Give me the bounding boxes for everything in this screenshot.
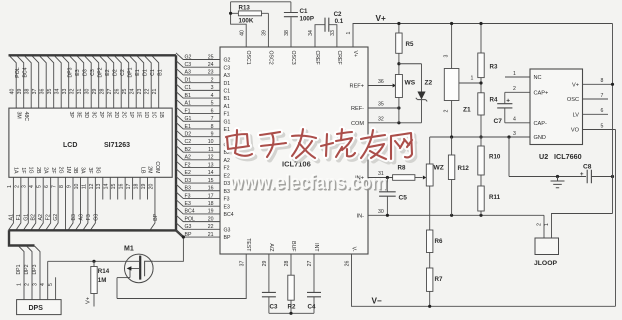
svg-text:R14: R14: [98, 268, 110, 275]
Z1 body: [444, 69, 459, 101]
wire bus entry C3 pin 24: [176, 61, 220, 68]
wire R8 to WZ wiper: [415, 177, 423, 179]
svg-text:7: 7: [601, 93, 604, 99]
svg-text:24: 24: [208, 62, 214, 68]
svg-text:LB: LB: [139, 167, 145, 174]
svg-text:COM: COM: [351, 121, 364, 127]
wire C5 bottom lead: [386, 196, 388, 215]
svg-text:A/Z: A/Z: [268, 243, 274, 251]
wire GND branch down: [508, 137, 510, 177]
svg-text:40: 40: [239, 30, 245, 36]
svg-text:R2: R2: [288, 304, 296, 311]
wire LCD bottom pin 6 to bus: [46, 177, 51, 230]
svg-text:8: 8: [601, 78, 604, 84]
stub LCD bottom pin 15: [117, 177, 119, 199]
wire LCD bottom pin 20 to bus: [150, 177, 155, 230]
svg-text:CAP+: CAP+: [534, 91, 549, 97]
wire R12 bottom: [451, 180, 453, 216]
wire OSC1 pin 40: [231, 2, 247, 47]
svg-text:38: 38: [284, 30, 290, 36]
svg-text:5: 5: [37, 185, 43, 188]
stub LCD bottom pin 18: [139, 177, 141, 199]
svg-text:SI71263: SI71263: [104, 142, 130, 149]
junction R12 IN-: [450, 214, 453, 217]
junction R13 left: [229, 12, 232, 15]
svg-text:G3: G3: [185, 224, 192, 230]
svg-text:1: 1: [346, 31, 352, 34]
svg-text:V+: V+: [352, 51, 358, 58]
wire TEST pin 37 to M1 source: [117, 254, 246, 299]
wire LCD bottom pin 3 to bus: [23, 177, 28, 230]
wire OSC3 pin 38 to C1: [290, 17, 292, 47]
wire V- rail: [352, 254, 616, 306]
svg-text:C3: C3: [185, 62, 192, 68]
svg-text:R5: R5: [406, 41, 414, 48]
wire C3 bottom: [268, 297, 270, 314]
svg-text:1: 1: [471, 76, 474, 82]
wire V+ rail: [353, 24, 613, 48]
svg-text:IN-: IN-: [357, 214, 365, 220]
svg-text:A2: A2: [185, 155, 191, 161]
svg-text:3P: 3P: [68, 112, 74, 119]
svg-text:F1: F1: [224, 112, 230, 118]
junction V+ Z1: [450, 22, 453, 25]
svg-text:3: 3: [22, 185, 28, 188]
svg-text:1E: 1E: [135, 112, 141, 119]
wire LCD bottom pin 12 to bus: [90, 177, 95, 230]
wire DPS pin 1 bus entry DP1: [19, 246, 25, 300]
wire bus entry G3 pin 22: [176, 223, 220, 230]
svg-text:3: 3: [32, 283, 38, 286]
svg-text:11: 11: [208, 147, 213, 153]
svg-text:A1: A1: [8, 214, 14, 220]
junction R4 rail: [479, 135, 482, 138]
svg-text:6: 6: [601, 108, 604, 114]
watermark chinese characters: [226, 129, 415, 162]
svg-text:REF+: REF+: [350, 84, 364, 90]
junction ground symbol: [556, 175, 559, 178]
wire M1 source down: [116, 278, 118, 299]
wire REF- pin 35: [368, 107, 399, 109]
svg-text:G3: G3: [93, 214, 99, 221]
wire R5 to WS: [398, 53, 400, 74]
wire M1 source: [117, 277, 130, 279]
junction R14 gate: [92, 260, 95, 263]
svg-text:A3: A3: [224, 73, 230, 79]
junction COM: [397, 121, 400, 124]
svg-text:37: 37: [239, 261, 245, 267]
svg-text:29: 29: [262, 261, 268, 267]
op-amp U1 ICL7106 body: [220, 47, 368, 254]
svg-text:1A: 1A: [13, 167, 19, 174]
svg-text:D3: D3: [83, 69, 89, 76]
wire R6 to R7: [429, 253, 431, 269]
transistor M1: [125, 254, 154, 283]
svg-text:32: 32: [70, 89, 76, 95]
svg-text:0.1: 0.1: [335, 18, 344, 25]
wire bus entry G2 pin 25: [176, 53, 220, 60]
wire R3 to R4: [480, 78, 482, 93]
wire R4 bottom to rail: [480, 115, 482, 137]
wire R12 top: [451, 137, 453, 155]
svg-text:7: 7: [211, 116, 214, 122]
wire bus entry E2 pin 14: [176, 169, 220, 176]
svg-text:D1: D1: [185, 77, 192, 83]
svg-text:DP2: DP2: [24, 264, 30, 274]
svg-text:INT: INT: [313, 243, 319, 252]
svg-text:1M: 1M: [65, 166, 71, 173]
svg-text:1C: 1C: [150, 112, 156, 119]
svg-text:19: 19: [141, 184, 147, 190]
IC U2 ICL7660 body: [530, 69, 583, 145]
svg-text:2: 2: [14, 185, 20, 188]
svg-text:14: 14: [104, 184, 110, 190]
svg-text:22: 22: [208, 224, 214, 230]
wire LCD top pin 36 to bus: [39, 55, 46, 108]
svg-text:3: 3: [211, 85, 214, 91]
wire DPS pin 3 bus entry DP3: [35, 246, 41, 300]
svg-text:21: 21: [152, 89, 158, 95]
wire C7 top lead: [504, 92, 506, 103]
svg-text:F1: F1: [185, 108, 191, 114]
stub DPS pin 5: [55, 277, 57, 299]
svg-text:18: 18: [208, 201, 214, 207]
svg-text:E1: E1: [135, 69, 141, 75]
svg-text:23: 23: [208, 70, 214, 76]
svg-text:23: 23: [137, 89, 143, 95]
svg-text:27: 27: [307, 261, 313, 267]
wire CAP- pin 4: [505, 122, 530, 124]
svg-text:R11: R11: [489, 194, 501, 201]
wire LCD bottom pin 4 to bus: [31, 177, 36, 230]
svg-text:27: 27: [107, 89, 113, 95]
wire BUF pin 28 to R2: [290, 254, 292, 275]
svg-text:V+: V+: [376, 14, 386, 23]
LCD display SI71263: [9, 108, 172, 177]
svg-text:LCD: LCD: [63, 142, 77, 149]
svg-text:OSC1: OSC1: [245, 51, 251, 65]
svg-text:37: 37: [32, 89, 38, 95]
wire bus entry C2 pin 10: [176, 138, 220, 145]
resistor R7: [427, 268, 433, 291]
wire U2 pin 7: [583, 98, 609, 100]
wire LCD bottom pin 9 to bus: [68, 177, 73, 230]
wire C8 right to V+ column: [591, 176, 612, 178]
svg-text:35: 35: [47, 89, 53, 95]
svg-text:VO: VO: [571, 128, 580, 134]
svg-text:C7: C7: [494, 118, 503, 125]
junction C5 IN-: [386, 214, 389, 217]
svg-text:2: 2: [444, 109, 450, 112]
wire bus entry A2 pin 12: [176, 153, 220, 160]
svg-text:25: 25: [208, 54, 214, 60]
svg-text:14: 14: [208, 170, 214, 176]
svg-text:R12: R12: [458, 165, 470, 172]
capacitor C8: [587, 170, 591, 184]
wire LCD top pin 29 to bus: [92, 55, 99, 108]
wire JLOOP pin 2: [543, 215, 545, 238]
svg-text:REF-: REF-: [351, 106, 364, 112]
svg-text:2C: 2C: [120, 112, 126, 119]
junction BP M1: [182, 235, 185, 238]
svg-text:31: 31: [77, 89, 83, 95]
capacitor C1: [284, 13, 298, 17]
svg-text:B1: B1: [158, 69, 164, 75]
resistor R12: [448, 155, 454, 180]
wire C5 top lead: [386, 178, 388, 192]
svg-text:G2: G2: [53, 214, 59, 221]
wire bus entry C1 pin 3: [176, 84, 220, 91]
wire LCD top pin 37 to bus: [32, 55, 39, 108]
wire LCD top pin 21 to bus: [152, 55, 159, 108]
svg-text:6: 6: [211, 108, 214, 114]
svg-text:C5: C5: [399, 195, 408, 202]
svg-text:C2: C2: [334, 11, 342, 18]
svg-text:D2: D2: [113, 69, 119, 76]
svg-text:R7: R7: [435, 276, 443, 283]
junction R11 IN-: [479, 214, 482, 217]
wire bus entry B3 pin 16: [176, 184, 220, 191]
wire REF+ pin 36 to WS wiper: [368, 85, 393, 87]
wire CAP+ pin 2: [505, 91, 530, 93]
wire bus entry E1 pin 8: [176, 122, 220, 129]
svg-text:30: 30: [85, 89, 91, 95]
wire Z1 pin 1 to R3 R4 node: [459, 82, 481, 84]
svg-text:C1: C1: [150, 69, 156, 76]
wire to Z2 top: [399, 63, 422, 65]
svg-text:B2: B2: [185, 147, 191, 153]
svg-text:15: 15: [208, 178, 214, 184]
svg-text:E1: E1: [224, 127, 230, 133]
wire bus entry BC4 pin 19: [176, 207, 220, 214]
wire LCD top pin 24 to bus: [129, 55, 136, 108]
bus spine vertical: [175, 55, 177, 230]
svg-text:D1: D1: [224, 81, 231, 87]
svg-text:F2: F2: [185, 162, 191, 168]
wire bus entry F3 pin 17: [176, 192, 220, 199]
wire LCD top pin 22 to bus: [144, 55, 151, 108]
junction R3 R4 Z1: [479, 81, 482, 84]
svg-text:35: 35: [378, 102, 384, 108]
svg-text:A2: A2: [38, 214, 44, 220]
svg-text:NC: NC: [534, 75, 542, 81]
wire DPS pin 4 to M1 gate net: [47, 261, 49, 299]
stub LCD bottom pin 17: [132, 177, 134, 199]
svg-text:13: 13: [96, 184, 102, 190]
svg-text:Z2: Z2: [425, 80, 433, 87]
svg-text:2: 2: [537, 223, 543, 226]
svg-text:100P: 100P: [300, 16, 314, 23]
svg-text:E2: E2: [224, 173, 230, 179]
svg-text:48C: 48C: [23, 112, 29, 122]
svg-text:CREF: CREF: [336, 51, 342, 65]
svg-text:15: 15: [111, 184, 117, 190]
svg-text:G2: G2: [224, 58, 231, 64]
svg-text:12: 12: [208, 155, 214, 161]
svg-text:R4: R4: [490, 97, 498, 104]
svg-text:28: 28: [284, 261, 290, 267]
svg-text:5: 5: [601, 123, 604, 129]
svg-text:G1: G1: [23, 214, 29, 221]
svg-text:3: 3: [444, 54, 450, 57]
svg-text:A2: A2: [224, 158, 230, 164]
wire LCD top pin 35 to bus: [47, 55, 54, 108]
resistor R14: [91, 267, 97, 294]
wire LCD bottom pin 5 to bus: [38, 177, 43, 230]
wire bus entry G1 pin 7: [176, 115, 220, 122]
wire CREF 33 to C2: [329, 25, 337, 47]
svg-text:F3: F3: [224, 197, 230, 203]
wire to JLOOP pin 1: [552, 214, 613, 239]
potentiometer WZ: [426, 164, 433, 186]
svg-text:24: 24: [130, 89, 136, 95]
svg-text:A3: A3: [185, 70, 191, 76]
wire common rail to U2 GND: [430, 136, 530, 138]
svg-text:13: 13: [208, 162, 214, 168]
wire LCD top pin 28 to bus: [99, 55, 106, 108]
wire bus entry A1 pin 5: [176, 99, 220, 106]
stub LCD bottom pin 14: [109, 177, 111, 199]
svg-text:5: 5: [48, 283, 54, 286]
wire R11 bottom: [480, 211, 482, 215]
wire bus entry D1 pin 2: [176, 76, 220, 83]
wire V+ right column: [612, 24, 614, 214]
wire LCD bottom pin 11 to bus: [83, 177, 88, 230]
svg-text:R13: R13: [239, 4, 251, 11]
wire DPS pin4 to M1 gate: [48, 260, 125, 262]
junction R2 bottom: [289, 312, 292, 315]
resistor R11: [478, 186, 484, 211]
bus lower horizontal: [9, 229, 176, 231]
wire R2 bottom: [290, 300, 292, 313]
svg-text:1D: 1D: [143, 112, 149, 119]
svg-text:R10: R10: [489, 154, 501, 161]
svg-text:16: 16: [208, 186, 214, 192]
svg-text:G2: G2: [185, 54, 192, 60]
wire bus entry B2 pin 11: [176, 146, 220, 153]
svg-text:BUF: BUF: [290, 241, 296, 251]
svg-text:R6: R6: [435, 238, 443, 245]
svg-text:C1: C1: [224, 88, 231, 94]
svg-text:22: 22: [145, 89, 151, 95]
svg-text:11: 11: [81, 184, 87, 189]
svg-text:39: 39: [262, 30, 268, 36]
wire M1 drain to BP: [153, 237, 183, 261]
wire R3 top from V+: [480, 24, 482, 54]
wire C3 R2 C4 common: [269, 312, 314, 314]
svg-text:F3: F3: [185, 193, 191, 199]
wire LCD bottom pin 2 to bus: [16, 177, 21, 230]
svg-text:A1: A1: [185, 101, 191, 107]
svg-text:F2: F2: [224, 166, 230, 172]
svg-text:2M: 2M: [147, 166, 153, 173]
wire LCD bottom pin 8 to bus: [65, 177, 67, 230]
svg-text:1: 1: [16, 283, 22, 286]
svg-text:3A: 3A: [80, 167, 86, 174]
wire LCD top pin 33 to bus: [62, 55, 69, 108]
svg-text:GND: GND: [534, 135, 546, 141]
svg-text:DP2: DP2: [98, 67, 104, 77]
svg-text:OSC3: OSC3: [290, 51, 296, 65]
svg-text:26: 26: [115, 89, 121, 95]
svg-text:4: 4: [513, 117, 516, 123]
svg-text:E3: E3: [75, 69, 81, 75]
wire R10 top: [480, 137, 482, 146]
bus branch to DPS: [9, 230, 35, 245]
wire INT pin 27 to C4: [313, 254, 315, 292]
svg-text:WZ: WZ: [434, 165, 444, 172]
wire Z2 cathode to COM: [421, 100, 423, 123]
svg-text:40: 40: [10, 89, 16, 95]
resistor R13: [231, 4, 269, 24]
svg-text:TEST: TEST: [245, 238, 251, 252]
svg-text:20: 20: [148, 184, 154, 190]
svg-text:F3: F3: [86, 214, 92, 220]
wire bus entry F2 pin 13: [176, 161, 220, 168]
svg-text:16: 16: [119, 184, 125, 190]
svg-text:Z1: Z1: [463, 107, 471, 114]
junction V+ R3: [479, 22, 482, 25]
svg-text:F1: F1: [16, 214, 22, 220]
svg-text:9: 9: [66, 185, 72, 188]
svg-text:C8: C8: [583, 164, 592, 171]
resistor R4: [478, 93, 484, 115]
svg-text:4: 4: [211, 93, 214, 99]
svg-text:B3: B3: [71, 214, 77, 220]
svg-text:8: 8: [211, 124, 214, 130]
svg-text:M1: M1: [124, 246, 134, 253]
svg-text:G3: G3: [224, 227, 231, 233]
svg-text:WS: WS: [405, 80, 416, 87]
wire LCD top pin 38 to bus: [24, 55, 31, 108]
wire WZ bottom to R6: [429, 186, 431, 230]
svg-text:2A: 2A: [42, 167, 48, 174]
svg-text:D1: D1: [143, 69, 149, 76]
svg-text:2F: 2F: [50, 167, 56, 173]
svg-text:G1: G1: [185, 116, 192, 122]
junction rail GND branch: [507, 135, 510, 138]
svg-text:CREF: CREF: [314, 51, 320, 65]
wire LCD top pin 34 to bus: [54, 55, 61, 108]
svg-text:33: 33: [62, 89, 68, 95]
svg-text:www.elecfans.com: www.elecfans.com: [229, 172, 387, 194]
wire rail to WZ top: [429, 137, 431, 164]
svg-text:E2: E2: [185, 170, 191, 176]
wire bus entry POL pin 20: [176, 215, 220, 222]
wire LCD top pin 27 to bus: [107, 55, 114, 108]
svg-text:12: 12: [89, 184, 95, 190]
svg-text:3: 3: [513, 131, 516, 137]
svg-text:V-: V-: [351, 247, 357, 252]
junction R5 WS Z2: [397, 62, 400, 65]
junction C8 V+ column: [611, 175, 614, 178]
svg-text:BP: BP: [224, 235, 231, 241]
svg-text:3B: 3B: [72, 167, 78, 174]
svg-text:36: 36: [378, 79, 384, 85]
svg-text:B3: B3: [224, 189, 230, 195]
svg-text:2: 2: [24, 283, 30, 286]
svg-text:30: 30: [378, 209, 384, 215]
svg-text:D3: D3: [185, 178, 192, 184]
wire bus entry B1 pin 4: [176, 92, 220, 99]
svg-text:DP1: DP1: [16, 264, 22, 274]
svg-text:2E: 2E: [105, 112, 111, 119]
svg-text:E3: E3: [224, 204, 230, 210]
wire A/Z pin 29 to C3: [268, 254, 270, 292]
svg-text:2P: 2P: [98, 112, 104, 119]
wire LCD bottom pin 1 to bus: [8, 177, 13, 230]
stub LCD bottom pin 16: [124, 177, 126, 199]
